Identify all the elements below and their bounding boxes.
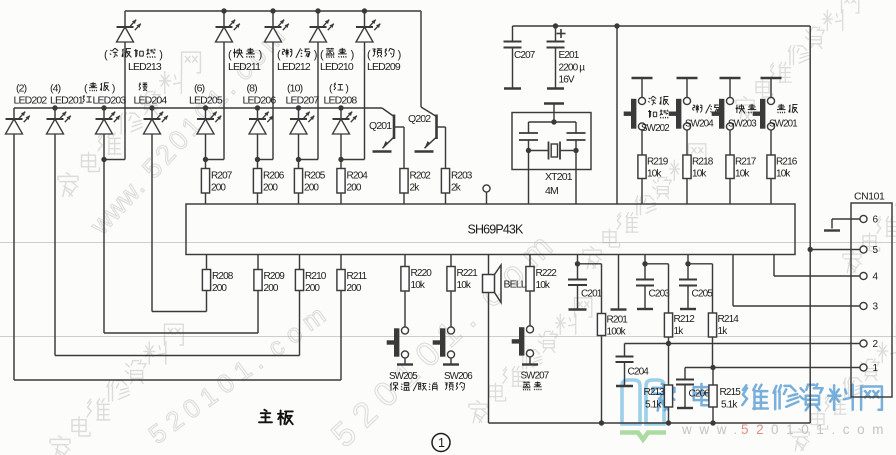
svg-text:Q201: Q201: [369, 120, 392, 132]
svg-text:C205: C205: [692, 289, 714, 300]
wire: [103, 134, 105, 333]
capacitor E201: [547, 26, 586, 89]
wire: [553, 104, 555, 123]
svg-text:R209: R209: [264, 271, 286, 282]
svg-text:10k: 10k: [692, 169, 707, 180]
wire: [206, 291, 208, 312]
label SW203: [728, 104, 757, 130]
ground: [611, 308, 627, 310]
resistor R216: [767, 155, 798, 180]
svg-text:R201: R201: [607, 315, 629, 326]
node: [625, 343, 861, 345]
svg-text:16V: 16V: [559, 75, 575, 86]
wire: [340, 108, 342, 119]
svg-text:SW201: SW201: [769, 119, 797, 130]
svg-text:): ): [112, 83, 115, 95]
resistor R215: [709, 385, 741, 411]
svg-text:C207: C207: [514, 50, 536, 61]
wire: [151, 134, 153, 312]
switch SW204: [669, 97, 691, 130]
resistor R207: [201, 169, 232, 194]
ground: [677, 77, 698, 79]
svg-text:1k: 1k: [674, 326, 685, 337]
wire: [223, 42, 225, 160]
svg-text:0101.com: 0101.com: [771, 422, 891, 437]
svg-text:(4): (4): [50, 83, 61, 95]
svg-text:5.1k: 5.1k: [721, 400, 738, 411]
svg-text:): ): [159, 49, 162, 61]
junction: [710, 365, 715, 370]
svg-text:200: 200: [211, 183, 226, 194]
svg-text:E201: E201: [559, 50, 580, 61]
wire: [299, 159, 319, 161]
wire: [641, 130, 643, 155]
wire: [13, 134, 15, 380]
junction: [685, 261, 690, 266]
wire: [317, 42, 319, 160]
svg-text:10k: 10k: [776, 169, 791, 180]
svg-text:10k: 10k: [647, 169, 662, 180]
ground: [677, 407, 693, 409]
svg-text:R203: R203: [451, 171, 473, 182]
wire: [513, 25, 811, 27]
svg-text:): ): [398, 49, 401, 61]
junction: [315, 8, 320, 13]
wire: [528, 151, 530, 205]
svg-text:SW202: SW202: [641, 123, 669, 134]
wire: [641, 78, 643, 98]
svg-text:): ): [314, 49, 317, 61]
svg-text:LED209: LED209: [367, 61, 401, 73]
wire: [688, 263, 713, 265]
wire: [809, 26, 811, 423]
wire: [529, 255, 531, 267]
resistor R203: [441, 169, 472, 194]
ground: [522, 363, 538, 365]
svg-text:10k: 10k: [411, 280, 426, 291]
svg-text:100k: 100k: [607, 327, 627, 338]
wire: [14, 379, 341, 381]
wire: [450, 255, 452, 267]
svg-text:1: 1: [438, 436, 445, 450]
svg-text:R222: R222: [536, 268, 558, 279]
capacitor C201: [568, 264, 603, 310]
label SW201: [769, 104, 798, 130]
label LED203: [83, 82, 127, 106]
wire: [205, 160, 207, 169]
label LED207: [286, 83, 320, 107]
IC SH69P43K: [186, 204, 795, 255]
wire: [298, 108, 300, 119]
wire: [486, 192, 488, 204]
switch SW203: [712, 97, 734, 130]
wire: [686, 130, 688, 155]
LED209: [356, 20, 380, 42]
svg-text:R216: R216: [776, 157, 798, 168]
label SW202: [641, 96, 669, 134]
wire: [668, 264, 670, 313]
LED213: [117, 20, 141, 42]
svg-text:): ): [259, 49, 262, 61]
label LED206: [243, 83, 277, 107]
svg-text:R218: R218: [692, 157, 714, 168]
junction: [221, 8, 226, 13]
junction: [101, 105, 106, 110]
svg-text:LED207: LED207: [286, 95, 320, 107]
ground: [544, 102, 564, 104]
resistor R211: [337, 270, 368, 295]
resistor R204: [337, 169, 368, 194]
junction: [255, 157, 260, 162]
resistor R214: [708, 313, 739, 337]
wire: [272, 11, 274, 27]
wire: [575, 151, 577, 205]
svg-text:2: 2: [873, 339, 879, 350]
wire: [205, 108, 207, 119]
wire: [298, 193, 300, 204]
LED206: [249, 112, 273, 134]
wire: [317, 11, 319, 27]
svg-text:LED206: LED206: [243, 95, 277, 107]
junction: [338, 105, 343, 110]
svg-text:LED213: LED213: [128, 61, 162, 73]
wire: [810, 249, 860, 251]
wire: [529, 291, 531, 326]
junction: [270, 8, 275, 13]
wire: [205, 134, 207, 160]
svg-text:4M: 4M: [545, 185, 558, 197]
label LED211: [228, 48, 262, 73]
wire: [298, 160, 300, 169]
resistor R221: [447, 267, 478, 292]
svg-text:SH69P43K: SH69P43K: [467, 223, 524, 237]
switch SW205: [387, 327, 409, 358]
wire: [729, 179, 731, 205]
wire: [668, 407, 670, 423]
label LED202: [14, 83, 48, 107]
wire: [450, 291, 452, 327]
ground: [637, 308, 653, 310]
svg-text:(10): (10): [287, 83, 303, 95]
svg-text:R206: R206: [263, 171, 285, 182]
decor: [681, 422, 891, 437]
ground: [680, 308, 696, 310]
svg-text:R217: R217: [735, 157, 757, 168]
svg-text:LED205: LED205: [189, 95, 223, 107]
junction: [149, 105, 154, 110]
junction: [614, 23, 619, 28]
svg-text:m: m: [296, 300, 331, 337]
LED211: [216, 20, 240, 42]
transistor Q201: [382, 108, 404, 148]
svg-text:LED210: LED210: [320, 61, 354, 73]
svg-text:CN101: CN101: [854, 192, 885, 203]
svg-text:XT201: XT201: [545, 171, 573, 183]
resistor R208: [202, 270, 233, 295]
svg-text:R207: R207: [211, 171, 233, 182]
label board: [259, 410, 293, 425]
svg-text:(8): (8): [247, 83, 258, 95]
wire: [770, 179, 772, 205]
svg-text:200: 200: [304, 183, 319, 194]
LED203: [96, 112, 120, 134]
junction: [642, 261, 647, 266]
resistor R220: [401, 267, 432, 292]
svg-text:R204: R204: [347, 171, 369, 182]
wire: [257, 193, 259, 204]
wire: [124, 42, 126, 160]
resistor R209: [254, 270, 285, 295]
label LED204: [134, 83, 168, 107]
wire: [489, 422, 811, 424]
capacitor C204: [616, 344, 650, 387]
resistor R213: [644, 385, 673, 411]
wire: [152, 311, 207, 313]
wire: [404, 291, 406, 327]
wire: [729, 78, 731, 98]
svg-text:4: 4: [873, 272, 879, 283]
resistor R217: [726, 155, 757, 180]
label SW205: [389, 371, 437, 391]
wire: [618, 255, 620, 310]
svg-text:200: 200: [305, 283, 320, 294]
svg-text:(: (: [320, 49, 324, 61]
wire: [403, 193, 405, 204]
svg-text:LED212: LED212: [277, 61, 311, 73]
ground: [443, 363, 459, 365]
svg-text:Q202: Q202: [408, 113, 431, 125]
ground: [761, 77, 782, 79]
decor: [620, 380, 666, 440]
wire: [257, 255, 259, 270]
ground: [720, 77, 741, 79]
LED210: [310, 20, 334, 42]
wire: [770, 78, 772, 98]
wire: [770, 130, 772, 155]
LED208: [333, 112, 357, 134]
wire: [272, 42, 274, 160]
junction: [101, 157, 106, 162]
svg-text:LED203: LED203: [93, 95, 127, 107]
wire: [773, 255, 775, 277]
resistor R222: [526, 267, 557, 292]
label LED212: [277, 48, 317, 73]
svg-text:R213: R213: [644, 387, 666, 398]
svg-text:(2): (2): [16, 83, 27, 95]
wire: [488, 293, 490, 424]
svg-text:LED208: LED208: [324, 95, 358, 107]
wire: [832, 218, 860, 220]
svg-text:(: (: [367, 49, 371, 61]
svg-text:C206: C206: [689, 389, 711, 400]
connector CN101: [851, 192, 892, 398]
decor: [653, 384, 882, 411]
label LED205: [189, 83, 223, 107]
svg-text:200: 200: [347, 283, 362, 294]
svg-text:200: 200: [263, 183, 278, 194]
resistor R201: [597, 314, 628, 338]
svg-text:R202: R202: [410, 171, 432, 182]
svg-text:(: (: [104, 49, 108, 61]
wire: [616, 26, 618, 204]
svg-text:10k: 10k: [735, 169, 750, 180]
wire: [257, 291, 259, 334]
wire: [340, 193, 342, 204]
svg-text:200: 200: [212, 283, 227, 294]
junction: [52, 105, 57, 110]
svg-text:SW203: SW203: [728, 119, 757, 130]
junction: [666, 341, 671, 346]
svg-text:R210: R210: [305, 271, 327, 282]
svg-text:R208: R208: [212, 271, 234, 282]
wire: [257, 134, 259, 160]
wire: [257, 108, 259, 119]
svg-text:R212: R212: [674, 314, 696, 325]
wire: [340, 160, 342, 169]
svg-text:2k: 2k: [451, 183, 462, 194]
svg-text:10k: 10k: [457, 280, 472, 291]
speaker BELL: [483, 265, 527, 303]
wire: [529, 357, 531, 365]
wire: [668, 344, 670, 386]
wire: [686, 179, 688, 205]
LED207: [290, 112, 314, 134]
wire: [712, 407, 714, 423]
junction: [808, 247, 813, 252]
ground: [397, 363, 413, 365]
label LED209: [367, 48, 401, 73]
wire: [257, 160, 259, 169]
wire: [223, 11, 225, 27]
wire: [403, 127, 405, 169]
junction: [203, 157, 208, 162]
svg-text:R214: R214: [718, 314, 740, 325]
capacitor C206: [676, 368, 710, 409]
junction: [296, 105, 301, 110]
label figure 1: [432, 434, 450, 452]
wire: [601, 336, 603, 424]
svg-text:R205: R205: [304, 171, 326, 182]
wire: [104, 332, 258, 334]
switch SW207: [512, 326, 534, 357]
label LED201: [50, 83, 84, 107]
switch SW206: [433, 327, 455, 358]
svg-text:R211: R211: [347, 271, 368, 282]
svg-text:BELL: BELL: [504, 279, 527, 291]
wire: [601, 264, 603, 314]
junction: [203, 105, 208, 110]
wire: [686, 78, 688, 98]
svg-text:SW204: SW204: [685, 119, 714, 130]
junction: [599, 420, 604, 425]
wire: [450, 358, 452, 365]
wire: [103, 108, 105, 119]
wire: [104, 159, 125, 161]
wire: [298, 134, 300, 160]
LED202: [6, 112, 30, 134]
svg-text:C203: C203: [649, 289, 671, 300]
wire: [125, 10, 421, 12]
ground: [415, 150, 434, 152]
svg-text:5.1k: 5.1k: [645, 400, 662, 411]
wire: [577, 255, 579, 264]
label LED208: [324, 83, 358, 107]
wire: [578, 263, 602, 265]
node: [685, 367, 860, 369]
svg-text:(: (: [228, 49, 232, 61]
switch SW201: [753, 97, 775, 130]
wire: [364, 42, 366, 160]
wire: [712, 368, 714, 386]
svg-text:LED211: LED211: [228, 61, 261, 73]
svg-text:C201: C201: [581, 289, 603, 300]
junction: [338, 157, 343, 162]
svg-text:52: 52: [741, 422, 771, 437]
svg-text:R220: R220: [411, 268, 433, 279]
LED205: [197, 112, 221, 134]
LED212: [265, 20, 289, 42]
crystal XT201: [512, 113, 591, 170]
wire: [258, 159, 274, 161]
junction: [575, 261, 580, 266]
test point: [483, 185, 490, 192]
svg-text:SW207: SW207: [521, 371, 549, 382]
wire: [299, 291, 301, 356]
wire: [55, 355, 300, 357]
wire: [645, 263, 669, 265]
svg-text:1k: 1k: [718, 326, 729, 337]
ground: [824, 229, 840, 231]
wire: [340, 134, 342, 160]
ground: [632, 77, 653, 79]
LED204: [144, 112, 168, 134]
wire: [54, 108, 56, 119]
capacitor C203: [636, 264, 670, 309]
resistor R218: [683, 155, 714, 180]
wire: [54, 134, 56, 356]
wire: [420, 11, 422, 107]
svg-text:(6): (6): [194, 83, 205, 95]
wire: [712, 337, 714, 368]
svg-text:LED202: LED202: [14, 95, 48, 107]
wire: [151, 108, 153, 119]
ground: [373, 150, 392, 152]
svg-text:LED204: LED204: [134, 95, 168, 107]
junction: [362, 8, 367, 13]
label LED213: [104, 48, 162, 73]
ground: [504, 87, 521, 89]
switch SW202: [624, 97, 646, 130]
junction: [255, 105, 260, 110]
svg-text:C204: C204: [628, 367, 650, 378]
wire: [712, 264, 714, 313]
resistor R210: [295, 270, 326, 295]
resistor R206: [253, 169, 284, 194]
junction: [710, 420, 715, 425]
capacitor C207: [504, 26, 536, 89]
wire: [205, 193, 207, 204]
wire: [445, 193, 447, 204]
wire: [340, 255, 342, 270]
svg-text:2k: 2k: [410, 183, 421, 194]
ground: [569, 308, 587, 310]
label SW207: [521, 371, 549, 391]
label SW204: [685, 104, 719, 129]
ground: [547, 87, 564, 89]
wire: [404, 358, 406, 365]
label LED210: [320, 48, 354, 73]
resistor R212: [664, 313, 695, 337]
